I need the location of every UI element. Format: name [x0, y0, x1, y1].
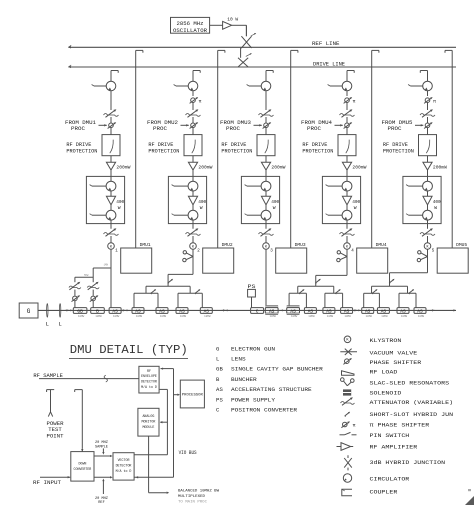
svg-text:RF DRIVE: RF DRIVE [66, 142, 91, 148]
svg-text:DMU4: DMU4 [376, 243, 387, 248]
svg-text:200mW: 200mW [116, 165, 130, 171]
svg-text:PIN SWITCH: PIN SWITCH [370, 432, 410, 439]
svg-text:AS: AS [365, 308, 371, 314]
svg-text:PROTECTION: PROTECTION [302, 148, 333, 154]
svg-text:10MW: 10MW [381, 315, 388, 318]
svg-text:RF LOAD: RF LOAD [370, 368, 399, 375]
svg-text:10MW: 10MW [366, 315, 373, 318]
svg-text:MULTIPLEXED: MULTIPLEXED [178, 495, 206, 499]
svg-text:400: 400 [271, 199, 279, 205]
svg-text:B: B [96, 308, 99, 314]
svg-text:MONITOR: MONITOR [141, 420, 155, 424]
svg-text:W: W [273, 205, 276, 211]
svg-text:10MW: 10MW [418, 315, 425, 318]
svg-text:L: L [58, 320, 61, 327]
svg-text:10MW: 10MW [327, 315, 334, 318]
svg-text:π: π [353, 424, 356, 429]
svg-text:SLAC-SLED RESONATORS: SLAC-SLED RESONATORS [370, 379, 450, 386]
svg-text:C: C [256, 308, 259, 314]
svg-text:10MW: 10MW [180, 315, 187, 318]
svg-text:CONVERTER: CONVERTER [73, 467, 91, 471]
svg-text:PROTECTION: PROTECTION [66, 148, 97, 154]
svg-text:ATTENUATOR (VARIABLE): ATTENUATOR (VARIABLE) [370, 399, 454, 406]
svg-text:PROC: PROC [71, 125, 86, 132]
svg-text:REF: REF [98, 501, 104, 505]
svg-text:W: W [118, 205, 121, 211]
svg-text:RF DRIVE: RF DRIVE [148, 142, 173, 148]
svg-text:PROC: PROC [388, 125, 403, 132]
svg-text:TEST: TEST [48, 427, 62, 433]
svg-text:PHASE SHIFTER: PHASE SHIFTER [370, 359, 422, 366]
svg-text:400: 400 [433, 199, 441, 205]
svg-text:AS: AS [112, 308, 118, 314]
svg-text:10MW: 10MW [78, 315, 85, 318]
svg-text:PROC: PROC [307, 125, 322, 132]
svg-text:DMU3: DMU3 [295, 243, 306, 248]
svg-text:G: G [216, 345, 220, 352]
svg-text:PROCESSOR: PROCESSOR [182, 393, 203, 397]
svg-text:MODULE: MODULE [142, 425, 154, 429]
svg-text:400: 400 [116, 199, 124, 205]
svg-text:PROC: PROC [226, 125, 241, 132]
svg-text:POWER SUPPLY: POWER SUPPLY [231, 396, 276, 403]
svg-text:DMU2: DMU2 [222, 243, 233, 248]
svg-text:PROTECTION: PROTECTION [383, 148, 414, 154]
svg-text:10MW: 10MW [136, 315, 143, 318]
svg-text:POINT: POINT [47, 433, 64, 439]
svg-text:PS: PS [216, 396, 224, 403]
svg-text:DMU5: DMU5 [456, 243, 467, 248]
svg-text:RF DRIVE: RF DRIVE [383, 142, 408, 148]
svg-text:5MW: 5MW [84, 274, 89, 277]
svg-text:OSCILLATOR: OSCILLATOR [173, 27, 208, 34]
svg-text:π: π [199, 99, 202, 104]
svg-text:C: C [216, 407, 220, 414]
svg-text:AS: AS [400, 308, 406, 314]
svg-text:AS: AS [417, 308, 423, 314]
svg-text:400: 400 [198, 199, 206, 205]
svg-text:DMU DETAIL (TYP): DMU DETAIL (TYP) [70, 343, 188, 357]
svg-text:10MW: 10MW [291, 315, 298, 318]
svg-text:10MW: 10MW [401, 315, 408, 318]
svg-text:200mW: 200mW [271, 165, 285, 171]
svg-text:π: π [353, 99, 356, 104]
svg-text:SINGLE CAVITY GAP BUNCHER: SINGLE CAVITY GAP BUNCHER [231, 366, 323, 373]
svg-text:200mW: 200mW [433, 165, 447, 171]
svg-text:AS: AS [204, 308, 210, 314]
svg-text:10MW: 10MW [344, 315, 351, 318]
svg-text:COUPLER: COUPLER [370, 489, 399, 496]
svg-text:10 W: 10 W [227, 16, 238, 22]
svg-text:VACUUM VALVE: VACUUM VALVE [370, 349, 418, 356]
svg-text:3dB HYBRID JUNCTION: 3dB HYBRID JUNCTION [370, 459, 446, 466]
svg-text:PROTECTION: PROTECTION [221, 148, 252, 154]
svg-text:CIRCULATOR: CIRCULATOR [370, 475, 410, 482]
svg-text:W: W [434, 205, 437, 211]
svg-text:PROC: PROC [153, 125, 168, 132]
svg-text:200mW: 200mW [198, 165, 212, 171]
svg-text:W: W [200, 205, 203, 211]
svg-text:RF: RF [147, 369, 151, 373]
svg-text:VECTOR: VECTOR [118, 458, 130, 462]
svg-text:L: L [46, 320, 49, 327]
svg-text:AS: AS [344, 308, 350, 314]
svg-text:10MW: 10MW [95, 315, 102, 318]
svg-text:SHORT-SLOT HYBRID JUN: SHORT-SLOT HYBRID JUN [370, 411, 454, 418]
svg-text:DETECTOR: DETECTOR [116, 464, 132, 468]
svg-text:AS: AS [159, 308, 165, 314]
svg-text:REF LINE: REF LINE [312, 40, 340, 47]
svg-text:BALANCED 10MHZ BW: BALANCED 10MHZ BW [178, 489, 220, 493]
svg-text:DMU1: DMU1 [140, 243, 151, 248]
svg-text:AS: AS [216, 386, 224, 393]
svg-text:ANALOG: ANALOG [142, 414, 154, 418]
svg-text:10MW: 10MW [308, 315, 315, 318]
svg-text:ELECTRON GUN: ELECTRON GUN [231, 345, 275, 352]
svg-text:VIO BUS: VIO BUS [179, 450, 197, 456]
svg-text:DETECTOR: DETECTOR [141, 380, 157, 384]
svg-text:AS: AS [179, 308, 185, 314]
svg-text:GB: GB [216, 366, 224, 373]
svg-text:10MW: 10MW [270, 315, 277, 318]
svg-text:AS: AS [135, 308, 141, 314]
svg-text:PS: PS [248, 284, 256, 290]
svg-text:PROTECTION: PROTECTION [148, 148, 179, 154]
svg-text:10MW: 10MW [160, 315, 167, 318]
svg-text:RF INPUT: RF INPUT [33, 480, 62, 486]
svg-text:RF AMPLIFIER: RF AMPLIFIER [370, 444, 418, 451]
svg-text:SAMPLE: SAMPLE [95, 445, 108, 449]
svg-text:M/A to D: M/A to D [141, 385, 157, 389]
svg-text:400: 400 [352, 199, 360, 205]
svg-text:ACCELERATING STRUCTURE: ACCELERATING STRUCTURE [231, 386, 312, 393]
svg-text:M/A to D: M/A to D [116, 469, 132, 473]
svg-text:200mW: 200mW [352, 165, 366, 171]
svg-text:10MW: 10MW [204, 315, 211, 318]
svg-text:RF DRIVE: RF DRIVE [302, 142, 327, 148]
svg-text:W: W [354, 205, 357, 211]
svg-text:SOLENOID: SOLENOID [370, 390, 403, 397]
svg-text:TO MAIN PROC: TO MAIN PROC [178, 501, 208, 505]
svg-text:RF DRIVE: RF DRIVE [221, 142, 246, 148]
svg-text:DRIVE LINE: DRIVE LINE [313, 61, 346, 68]
svg-text:AS: AS [381, 308, 387, 314]
svg-text:G: G [27, 308, 31, 315]
svg-text:GB: GB [77, 308, 83, 314]
svg-text:AS: AS [308, 308, 314, 314]
svg-text:π: π [433, 99, 436, 104]
svg-text:ENVELOPE: ENVELOPE [141, 374, 157, 378]
svg-text:KLYSTRON: KLYSTRON [370, 337, 402, 344]
svg-text:1MW: 1MW [104, 264, 109, 267]
svg-text:POWER: POWER [47, 421, 65, 427]
svg-text:π PHASE SHIFTER: π PHASE SHIFTER [370, 422, 430, 429]
svg-text:B: B [216, 376, 220, 383]
svg-text:DOWN: DOWN [78, 461, 86, 465]
svg-text:L: L [216, 356, 220, 363]
svg-text:POSITRON CONVERTER: POSITRON CONVERTER [231, 407, 298, 414]
svg-text:BUNCHER: BUNCHER [231, 376, 257, 383]
svg-text:10MW: 10MW [113, 315, 120, 318]
svg-text:AS: AS [326, 308, 332, 314]
svg-text:LENS: LENS [231, 356, 246, 363]
